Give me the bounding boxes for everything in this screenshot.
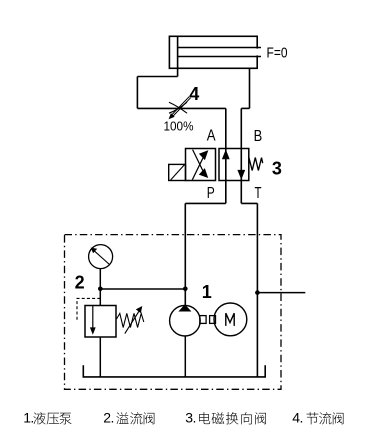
valve arrow down on B line bbox=[237, 170, 245, 180]
svg-text:4: 4 bbox=[189, 84, 199, 104]
valve crossed arrow down-right bbox=[193, 150, 209, 178]
wire P down to pump bbox=[184, 203, 186, 305]
cylinder body bbox=[169, 36, 257, 68]
coupling squares bbox=[200, 316, 216, 324]
wire pump to tank bbox=[184, 336, 186, 377]
svg-text:4.: 4. bbox=[292, 410, 302, 426]
valve U3 right square bbox=[219, 149, 249, 181]
dash-dot enclosure box bbox=[65, 235, 282, 390]
svg-text:3.: 3. bbox=[185, 410, 195, 426]
cylinder rod bbox=[178, 48, 261, 57]
rod gap in right end cap bbox=[256, 49, 259, 56]
wire left vertical down bbox=[136, 77, 138, 109]
legend label 1. bbox=[23, 410, 71, 426]
junction at gauge bbox=[98, 287, 103, 292]
wire cylinder left port down bbox=[177, 68, 179, 76]
junction at T line bbox=[255, 290, 260, 295]
legend label 2. bbox=[103, 410, 154, 426]
wire P jog horizontal bbox=[185, 202, 226, 204]
svg-text:3: 3 bbox=[272, 159, 282, 179]
throttle valve 4 cross arcs bbox=[169, 102, 187, 113]
junction at pump bbox=[183, 287, 188, 292]
svg-text:1.: 1. bbox=[23, 410, 33, 426]
relief valve pilot dashed line bbox=[77, 298, 100, 320]
svg-text:T: T bbox=[255, 185, 262, 202]
wire gauge to pump horizontal bbox=[100, 288, 185, 290]
valve crossed arrow up-right bbox=[192, 150, 208, 180]
motor M bbox=[214, 303, 247, 336]
relief valve internal arrow bbox=[90, 306, 96, 335]
svg-text:2.: 2. bbox=[103, 410, 113, 426]
wire B line down through valve to T jog bbox=[240, 108, 242, 203]
wire A line down to valve and P below bbox=[225, 108, 227, 203]
relief valve adjust arrow bbox=[125, 306, 143, 334]
solenoid box bbox=[169, 164, 186, 180]
svg-text:100%: 100% bbox=[164, 118, 194, 133]
wire B step bbox=[241, 107, 249, 109]
wire T jog horizontal bbox=[241, 202, 257, 204]
wire throttle horizontal bbox=[137, 107, 225, 109]
wire gauge stub bbox=[99, 269, 101, 289]
valve U3 left square bbox=[186, 149, 216, 181]
relief valve 2 body bbox=[85, 306, 116, 338]
svg-text:P: P bbox=[207, 185, 215, 202]
cylinder piston bbox=[177, 36, 179, 68]
wire cylinder right port down bbox=[249, 68, 251, 108]
valve arrow up on A line bbox=[222, 149, 230, 159]
wire relief to tank bbox=[99, 337, 101, 377]
wire T down to tank bbox=[256, 203, 258, 377]
pump 1 bbox=[170, 304, 201, 336]
throttle valve 4 arrow bbox=[169, 97, 191, 120]
svg-text:A: A bbox=[207, 128, 216, 145]
wire junction to relief valve bbox=[99, 289, 101, 306]
legend label 4. bbox=[292, 410, 343, 426]
wire left jog horizontal bbox=[137, 76, 177, 78]
svg-text:B: B bbox=[254, 128, 263, 145]
svg-text:1: 1 bbox=[202, 282, 212, 302]
pressure gauge bbox=[89, 245, 113, 269]
valve return spring bbox=[249, 158, 263, 171]
relief valve spring bbox=[117, 313, 144, 327]
svg-text:F=0: F=0 bbox=[267, 45, 288, 62]
svg-text:2: 2 bbox=[75, 272, 85, 292]
legend label 3. bbox=[185, 410, 266, 426]
tank bbox=[83, 365, 265, 377]
wire external load line bbox=[257, 292, 305, 294]
